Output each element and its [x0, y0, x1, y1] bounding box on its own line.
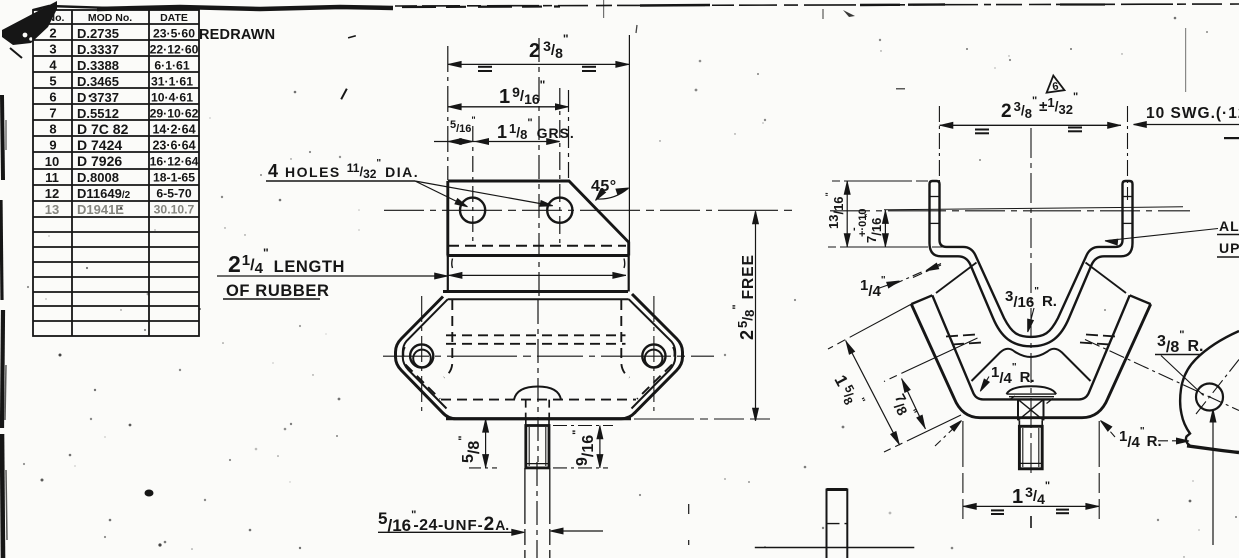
svg-text:D 7424: D 7424: [77, 137, 122, 153]
dim 5/16 + 1 1/8 GRS line: [434, 141, 560, 143]
svg-text:16·12·64: 16·12·64: [150, 155, 199, 169]
dim text 5/8 rotated: [457, 436, 483, 463]
dim text 1 5/8 rotated: [830, 370, 867, 412]
sheet border top: broken dashes right part: [395, 4, 1239, 6]
bottom horizontal centreline: [755, 547, 915, 549]
bottom partial view stud: [827, 488, 848, 491]
SECTION: left view texts: [223, 32, 757, 535]
header separator: [33, 23, 199, 25]
vertical dimension arrow: [1212, 412, 1214, 545]
svg-text:10 SWG.(·12: 10 SWG.(·12: [1146, 105, 1239, 122]
extension lines top: [448, 35, 630, 246]
AL/UP leader: [1108, 229, 1218, 241]
hidden rubber dashes on right wing: [1086, 335, 1116, 337]
hidden rubber horizontals: [446, 334, 626, 336]
cradle inner profile: [932, 295, 1129, 399]
table frame: [33, 6, 199, 10]
svg-text:D.3337: D.3337: [77, 42, 119, 57]
partial view hole circle: [1196, 384, 1223, 411]
vertical centreline: [1030, 128, 1032, 473]
svg-text:6-5-70: 6-5-70: [156, 187, 191, 201]
base hole left inner: [413, 350, 431, 368]
dim 5/8: [485, 419, 487, 468]
svg-text:9: 9: [49, 138, 56, 153]
1/4 R leader (inner): [982, 377, 990, 390]
partial view centreline B: [1196, 360, 1239, 415]
svg-text:45°: 45°: [591, 178, 617, 195]
stud shank: [526, 419, 549, 426]
plate hidden bottom line: [448, 245, 626, 247]
horizontal centreline: [830, 210, 1190, 212]
ticks inside arms: [931, 196, 939, 198]
sheet border top: thick solid left part: [97, 7, 393, 9]
svg-text:7: 7: [49, 106, 56, 121]
partial view outline: [1180, 331, 1239, 446]
rubber tent profile: [972, 349, 1091, 381]
svg-text:D.8008: D.8008: [77, 170, 119, 185]
svg-text:OF RUBBER: OF RUBBER: [226, 282, 329, 300]
cradle outer profile: [911, 304, 1150, 418]
dim 7/8 line: [902, 379, 926, 430]
dim text 9/16 rotated: [571, 430, 597, 466]
top plate outline: [448, 181, 629, 256]
dim 1 3/4 line: [963, 505, 1099, 507]
main vertical centreline: [538, 38, 540, 300]
UNF thread leader: [378, 531, 520, 533]
right arm: [1123, 181, 1133, 184]
base inner top line: [403, 299, 675, 408]
svg-text:13: 13: [45, 202, 59, 217]
dim 2 3/8 +- 1/32: extension lines: [938, 106, 940, 200]
svg-text:8: 8: [49, 122, 56, 137]
dim 7/16 line: [884, 210, 886, 247]
svg-text:3: 3: [49, 42, 56, 57]
column dividers: [71, 10, 73, 336]
svg-text:D.3465: D.3465: [77, 74, 119, 89]
dim text 7/8 rotated: [887, 391, 918, 423]
partial view centreline A: [1085, 340, 1239, 411]
hole top-right: [547, 198, 572, 223]
stud shank: [1019, 420, 1042, 426]
rubber dome: [1007, 386, 1057, 394]
stud thread (heavy): [526, 426, 549, 468]
svg-text:14·2·64: 14·2·64: [152, 123, 195, 137]
dim 2 3/8 +- 1/32: line: [940, 124, 1122, 126]
svg-text:REDRAWN: REDRAWN: [199, 27, 275, 43]
dim 1 5/8 / 7/8 shared extension bottom: [884, 415, 961, 452]
SECTION: right view texts: [824, 81, 1239, 508]
hidden rubber block sides: [403, 300, 674, 400]
hole top-left: [460, 198, 485, 223]
dim text 13/16 rotated: [824, 192, 846, 229]
stray centreline dashes: [688, 504, 690, 514]
base hole right inner: [645, 350, 663, 368]
dim 1 5/8 extension top: [828, 304, 911, 349]
stud thread: [1019, 426, 1042, 469]
base hole left outer: [410, 344, 433, 367]
left scan edge streaks: [2, 95, 3, 180]
svg-text:UP: UP: [1219, 240, 1239, 256]
svg-text:18-1-65: 18-1-65: [153, 171, 195, 185]
svg-text:-: -: [848, 227, 860, 231]
corner radius ticks + arrows: [935, 423, 960, 447]
empty row lines: [33, 231, 199, 233]
dim 13/16 line: [846, 181, 848, 247]
SECTION: partial far right view + bottom partial: [689, 331, 1239, 558]
rubber top line (thick): [447, 254, 630, 257]
stud extension lines below: [524, 468, 526, 558]
svg-text:D.5512: D.5512: [77, 106, 119, 121]
svg-text:D.2735: D.2735: [77, 26, 119, 41]
svg-text:D 7C 82: D 7C 82: [77, 121, 129, 137]
svg-text:22·12·60: 22·12·60: [150, 43, 199, 57]
dim 2 3/8 line: [434, 64, 629, 141]
svg-text:10: 10: [45, 154, 59, 169]
svg-text:4: 4: [49, 58, 57, 73]
base bottom thick edge: [446, 417, 631, 420]
svg-text:D 7926: D 7926: [77, 153, 122, 169]
base outline outer: [396, 292, 683, 419]
hidden stud inside base: [525, 400, 527, 418]
base hole centrelines: [421, 296, 423, 413]
dim 9/16: [599, 426, 601, 468]
left wing end edge: [911, 295, 932, 304]
X box (stud through rubber): [1017, 399, 1019, 420]
svg-text:10·4·61: 10·4·61: [151, 91, 193, 105]
dim 1 5/8 line: [846, 341, 900, 446]
base bottom extension to 2 5/8 dim: [634, 418, 770, 420]
45 deg arc with arrows: [597, 189, 628, 200]
svg-text:MOD No.: MOD No.: [88, 12, 132, 24]
SECTION: left view (front elevation of mount): [217, 35, 795, 558]
1/4 R leader (right outer): [1158, 440, 1186, 442]
dim text 7/16 +.010 rotated: [863, 213, 884, 243]
svg-text:+·010: +·010: [857, 209, 869, 237]
partial view bottom thick edge: [1187, 446, 1239, 453]
dim 1 9/16 line: [448, 106, 569, 108]
left arm: [930, 181, 940, 184]
svg-text:31·1·61: 31·1·61: [151, 75, 193, 89]
svg-text:No.: No.: [48, 12, 65, 24]
svg-text:23·6·64: 23·6·64: [152, 139, 195, 153]
svg-text:2: 2: [49, 26, 56, 41]
svg-text:D 3737: D 3737: [77, 90, 119, 105]
10 SWG leader: [1133, 124, 1239, 126]
svg-text:6·1·61: 6·1·61: [154, 59, 189, 73]
table text: [45, 12, 276, 217]
svg-text:6: 6: [49, 90, 56, 105]
dim 1 3/4 extension lines: [962, 421, 964, 519]
horizontal centreline through base: [383, 355, 714, 357]
dim text 2 5/8 FREE rotated: [731, 254, 757, 340]
hidden base inner outline: [441, 399, 636, 401]
dim 13/16 refs: [832, 180, 928, 182]
right wing end edge: [1130, 295, 1151, 304]
hidden rubber dashes on left wing: [946, 335, 976, 337]
corner fold triangle: [2, 1, 57, 45]
dim 2 1/4 length of rubber: leader + line: [217, 275, 447, 277]
svg-text:30.10.7: 30.10.7: [154, 203, 195, 217]
base hole right outer: [642, 344, 665, 367]
svg-text:D1941E: D1941E: [77, 202, 124, 217]
svg-text:12: 12: [45, 186, 59, 201]
SECTION: revision table: [33, 6, 199, 336]
horizontal centreline through top holes: [384, 209, 795, 211]
data row lines: [33, 39, 199, 41]
3/16 R leader: [1029, 308, 1035, 329]
dim 2 5/8 FREE: [755, 212, 757, 421]
rubber shoulder lines: [936, 263, 977, 294]
rubber side edges: [448, 256, 629, 292]
dim 7/8 extension top: [884, 338, 978, 382]
inspection triangle 6: [1044, 74, 1064, 92]
leaders from 4 HOLES label to holes: [415, 181, 466, 206]
svg-text:DATE: DATE: [160, 12, 188, 24]
dim 1/4 (wing end) leader + ticks: [878, 282, 897, 289]
rubber dome: [514, 387, 561, 400]
SECTION: right view (V bracket section): [828, 74, 1239, 528]
svg-text:29·10·62: 29·10·62: [150, 107, 199, 121]
svg-text:11: 11: [45, 170, 59, 185]
3/8 R leader line: [1161, 356, 1204, 396]
svg-text:D.3388: D.3388: [77, 58, 119, 73]
svg-text:AL: AL: [1219, 218, 1239, 234]
rubber corner ticks: [451, 259, 454, 269]
svg-text:23·5·60: 23·5·60: [153, 27, 195, 41]
svg-text:5: 5: [49, 74, 56, 89]
